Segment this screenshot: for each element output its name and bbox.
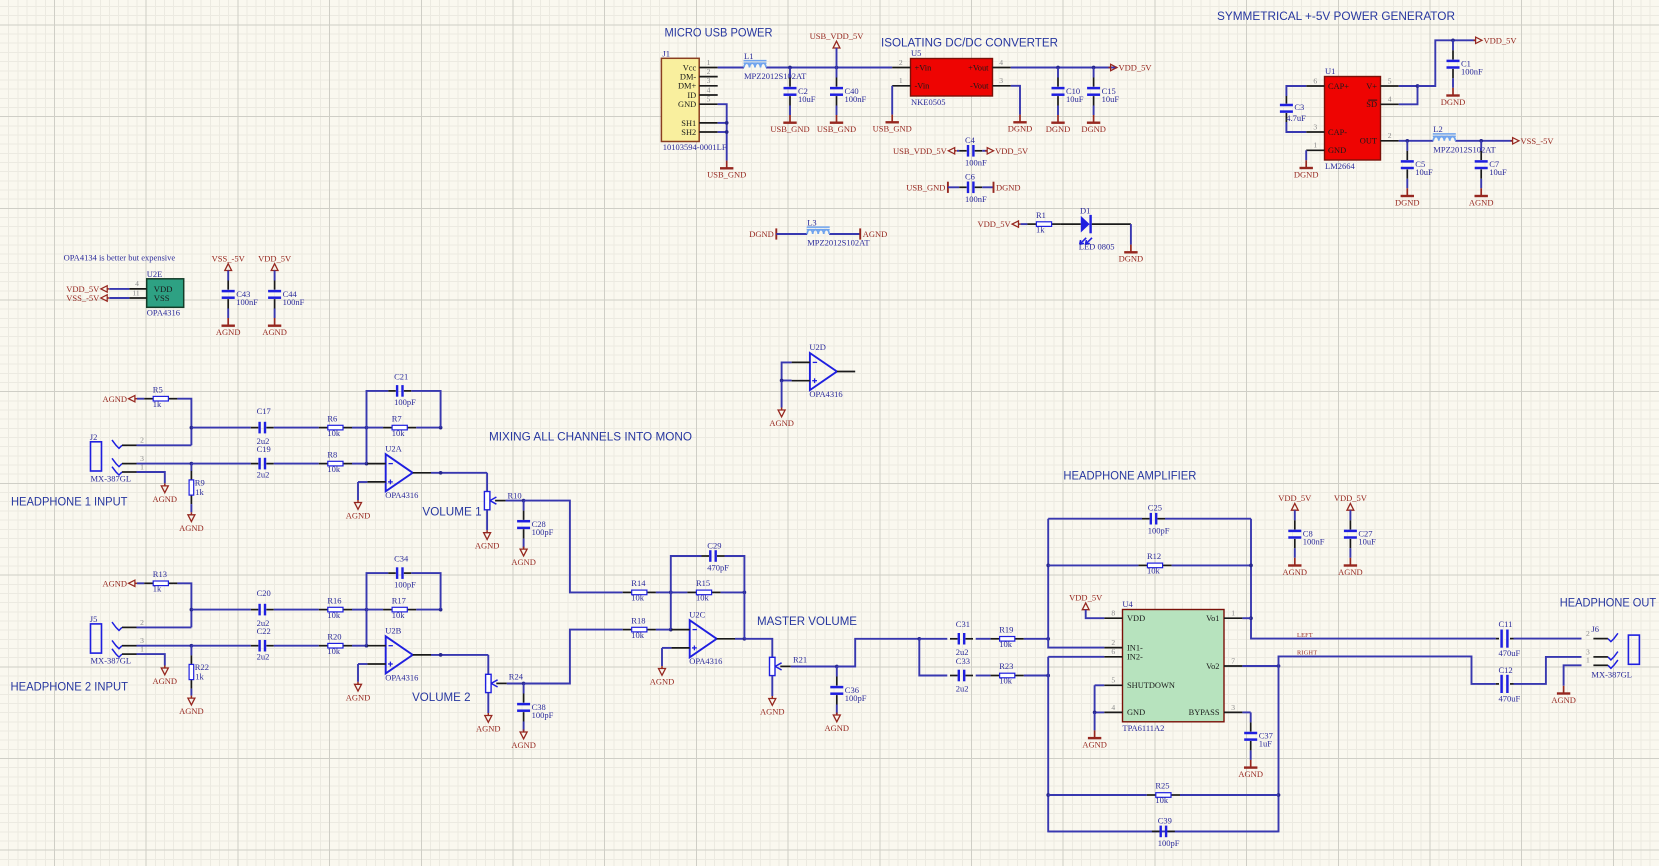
svg-text:R7: R7 <box>392 413 402 423</box>
svg-text:AGND: AGND <box>1338 567 1363 577</box>
svg-text:AGND: AGND <box>863 229 888 239</box>
svg-text:R19: R19 <box>999 625 1013 635</box>
svg-text:MPZ2012S102AT: MPZ2012S102AT <box>744 71 807 81</box>
svg-text:1uF: 1uF <box>1259 739 1273 749</box>
svg-text:MIXING ALL CHANNELS INTO MONO: MIXING ALL CHANNELS INTO MONO <box>489 431 692 444</box>
svg-text:1k: 1k <box>195 672 204 682</box>
svg-text:100nF: 100nF <box>965 194 987 204</box>
svg-text:2: 2 <box>1586 629 1590 638</box>
svg-text:V+: V+ <box>1366 82 1377 91</box>
svg-text:OPA4316: OPA4316 <box>689 656 722 666</box>
svg-text:AGND: AGND <box>476 724 501 734</box>
svg-text:10k: 10k <box>999 639 1013 649</box>
svg-text:AGND: AGND <box>1082 739 1107 749</box>
svg-text:USB_GND: USB_GND <box>707 170 746 180</box>
svg-text:100pF: 100pF <box>1148 525 1170 535</box>
svg-text:10k: 10k <box>327 464 341 474</box>
svg-text:MICRO USB POWER: MICRO USB POWER <box>665 27 773 40</box>
svg-text:2u2: 2u2 <box>257 469 270 479</box>
svg-text:R14: R14 <box>631 578 646 588</box>
svg-text:DGND: DGND <box>1119 254 1144 264</box>
svg-text:C20: C20 <box>257 588 271 598</box>
svg-text:10k: 10k <box>631 630 645 640</box>
svg-text:AGND: AGND <box>179 706 204 716</box>
svg-text:1: 1 <box>1586 656 1590 665</box>
svg-text:100nF: 100nF <box>965 158 987 168</box>
svg-text:2u2: 2u2 <box>956 684 969 694</box>
svg-text:C11: C11 <box>1499 619 1513 629</box>
svg-text:BYPASS: BYPASS <box>1189 708 1220 717</box>
svg-text:U2A: U2A <box>385 443 402 453</box>
svg-text:100pF: 100pF <box>532 527 554 537</box>
svg-text:10k: 10k <box>999 676 1013 686</box>
svg-text:100nF: 100nF <box>1461 67 1483 77</box>
svg-text:10103594-0001LF: 10103594-0001LF <box>663 142 727 152</box>
svg-text:OPA4316: OPA4316 <box>385 490 418 500</box>
svg-text:VDD_5V: VDD_5V <box>1119 63 1153 73</box>
svg-text:10uF: 10uF <box>798 94 816 104</box>
svg-text:AGND: AGND <box>346 692 371 702</box>
svg-text:470uF: 470uF <box>1499 648 1521 658</box>
svg-text:R24: R24 <box>509 671 524 681</box>
svg-text:1: 1 <box>707 58 711 67</box>
svg-text:R18: R18 <box>631 615 645 625</box>
svg-text:100pF: 100pF <box>1158 838 1180 848</box>
svg-text:USB_GND: USB_GND <box>817 124 856 134</box>
svg-text:10uF: 10uF <box>1358 537 1376 547</box>
svg-text:2: 2 <box>899 58 903 67</box>
svg-text:OPA4134 is better but expensiv: OPA4134 is better but expensive <box>64 252 176 262</box>
svg-text:VSS_-5V: VSS_-5V <box>66 293 100 303</box>
svg-text:AGND: AGND <box>102 578 127 588</box>
svg-text:10uF: 10uF <box>1066 94 1084 104</box>
svg-text:IN2-: IN2- <box>1127 653 1143 662</box>
svg-text:D1: D1 <box>1080 206 1090 216</box>
svg-text:R25: R25 <box>1155 781 1169 791</box>
svg-text:C39: C39 <box>1158 815 1172 825</box>
svg-text:3: 3 <box>707 76 711 85</box>
svg-text:R5: R5 <box>153 384 163 394</box>
svg-text:100nF: 100nF <box>845 94 867 104</box>
svg-text:4: 4 <box>135 279 139 288</box>
svg-text:AGND: AGND <box>1469 197 1494 207</box>
svg-text:1k: 1k <box>153 399 162 409</box>
svg-text:ISOLATING DC/DC CONVERTER: ISOLATING DC/DC CONVERTER <box>881 36 1058 50</box>
svg-text:VDD_5V: VDD_5V <box>995 146 1029 156</box>
svg-text:3: 3 <box>1313 122 1317 131</box>
svg-text:OUT: OUT <box>1360 137 1377 146</box>
svg-text:R13: R13 <box>153 569 167 579</box>
svg-text:1k: 1k <box>153 584 162 594</box>
svg-text:U2C: U2C <box>689 609 705 619</box>
svg-text:HEADPHONE 2 INPUT: HEADPHONE 2 INPUT <box>11 681 129 694</box>
svg-text:AGND: AGND <box>1551 695 1576 705</box>
svg-text:C6: C6 <box>965 171 975 181</box>
svg-text:OPA4316: OPA4316 <box>147 308 180 318</box>
svg-text:100nF: 100nF <box>1303 537 1325 547</box>
svg-text:VDD_5V: VDD_5V <box>1484 35 1518 45</box>
svg-text:AGND: AGND <box>216 327 241 337</box>
svg-text:AGND: AGND <box>179 523 204 533</box>
svg-text:RIGHT: RIGHT <box>1297 650 1317 657</box>
svg-text:5: 5 <box>707 95 711 104</box>
svg-text:AGND: AGND <box>1283 567 1308 577</box>
svg-text:SD: SD <box>1366 100 1377 109</box>
svg-text:+Vin: +Vin <box>915 63 933 72</box>
svg-text:HEADPHONE OUT: HEADPHONE OUT <box>1560 596 1656 609</box>
svg-text:10k: 10k <box>327 428 341 438</box>
svg-text:10uF: 10uF <box>1102 94 1120 104</box>
svg-text:10k: 10k <box>696 593 710 603</box>
svg-text:DGND: DGND <box>1008 124 1033 134</box>
svg-text:J6: J6 <box>1591 624 1599 634</box>
svg-text:OPA4316: OPA4316 <box>385 672 418 682</box>
svg-text:100pF: 100pF <box>394 397 416 407</box>
svg-text:MX-387GL: MX-387GL <box>1591 669 1632 679</box>
svg-text:CAP-: CAP- <box>1328 128 1347 137</box>
svg-text:VDD_5V: VDD_5V <box>258 253 292 263</box>
svg-text:R10: R10 <box>508 491 522 501</box>
svg-text:CAP+: CAP+ <box>1328 82 1349 91</box>
svg-text:8: 8 <box>1111 609 1115 618</box>
svg-text:U2E: U2E <box>147 269 163 279</box>
svg-text:C33: C33 <box>956 656 970 666</box>
svg-text:100nF: 100nF <box>236 297 258 307</box>
svg-text:IN1-: IN1- <box>1127 643 1143 652</box>
svg-text:VOLUME 2: VOLUME 2 <box>412 691 470 704</box>
svg-text:4: 4 <box>1111 703 1115 712</box>
svg-text:ID: ID <box>687 91 696 100</box>
svg-text:2: 2 <box>1111 638 1115 647</box>
svg-text:C22: C22 <box>257 626 271 636</box>
svg-text:GND: GND <box>678 100 696 109</box>
svg-text:AGND: AGND <box>511 740 536 750</box>
svg-text:3: 3 <box>1231 703 1235 712</box>
svg-text:VSS_-5V: VSS_-5V <box>212 253 246 263</box>
svg-text:AGND: AGND <box>475 541 500 551</box>
svg-text:HEADPHONE AMPLIFIER: HEADPHONE AMPLIFIER <box>1063 469 1196 482</box>
svg-text:470pF: 470pF <box>707 563 729 573</box>
svg-text:100pF: 100pF <box>845 693 867 703</box>
svg-text:C4: C4 <box>965 135 976 145</box>
svg-text:10k: 10k <box>327 646 341 656</box>
svg-text:6: 6 <box>1111 647 1115 656</box>
svg-text:L1: L1 <box>744 51 753 61</box>
svg-text:100pF: 100pF <box>394 579 416 589</box>
svg-text:C31: C31 <box>956 619 970 629</box>
svg-text:VSS_-5V: VSS_-5V <box>1521 136 1555 146</box>
svg-text:U2D: U2D <box>809 342 826 352</box>
svg-text:SHUTDOWN: SHUTDOWN <box>1127 681 1175 690</box>
svg-text:+Vout: +Vout <box>968 63 989 72</box>
svg-text:7: 7 <box>1231 656 1235 665</box>
svg-text:USB_GND: USB_GND <box>873 124 912 134</box>
svg-text:R8: R8 <box>327 449 337 459</box>
svg-text:R20: R20 <box>327 631 341 641</box>
svg-text:DM-: DM- <box>680 73 696 82</box>
svg-text:DGND: DGND <box>1046 124 1071 134</box>
svg-text:OPA4316: OPA4316 <box>809 389 842 399</box>
svg-text:C34: C34 <box>394 554 409 564</box>
svg-text:C17: C17 <box>257 406 271 416</box>
svg-text:U4: U4 <box>1122 599 1133 609</box>
svg-text:SYMMETRICAL +-5V POWER GENERAT: SYMMETRICAL +-5V POWER GENERATOR <box>1217 9 1455 23</box>
svg-text:U5: U5 <box>911 48 921 58</box>
svg-text:AGND: AGND <box>825 723 850 733</box>
svg-text:VDD_5V: VDD_5V <box>1334 493 1368 503</box>
svg-text:Vcc: Vcc <box>683 63 697 72</box>
svg-text:SH2: SH2 <box>681 128 696 137</box>
svg-text:AGND: AGND <box>650 677 675 687</box>
svg-text:SH1: SH1 <box>681 119 696 128</box>
svg-text:5: 5 <box>1111 676 1115 685</box>
svg-text:USB_VDD_5V: USB_VDD_5V <box>810 31 865 41</box>
svg-text:DGND: DGND <box>749 229 774 239</box>
svg-text:R1: R1 <box>1036 210 1046 220</box>
svg-text:11: 11 <box>132 288 140 297</box>
svg-text:MX-387GL: MX-387GL <box>91 656 132 666</box>
svg-text:C29: C29 <box>707 540 721 550</box>
svg-text:Vo2: Vo2 <box>1206 662 1219 671</box>
svg-text:AGND: AGND <box>346 511 371 521</box>
svg-text:10k: 10k <box>1155 795 1169 805</box>
svg-text:GND: GND <box>1127 708 1145 717</box>
svg-text:DGND: DGND <box>1294 169 1319 179</box>
svg-text:-Vout: -Vout <box>970 82 989 91</box>
svg-text:R12: R12 <box>1147 551 1161 561</box>
svg-text:DM+: DM+ <box>678 82 696 91</box>
svg-text:R15: R15 <box>696 578 710 588</box>
svg-text:4: 4 <box>707 85 711 94</box>
svg-text:LM2664: LM2664 <box>1325 161 1356 171</box>
svg-text:USB_VDD_5V: USB_VDD_5V <box>893 146 948 156</box>
svg-text:U2B: U2B <box>385 625 401 635</box>
svg-text:2u2: 2u2 <box>257 651 270 661</box>
svg-text:1k: 1k <box>1036 224 1045 234</box>
svg-text:AGND: AGND <box>760 707 785 717</box>
svg-text:10uF: 10uF <box>1489 167 1507 177</box>
svg-text:4: 4 <box>1388 95 1392 104</box>
svg-text:TPA6111A2: TPA6111A2 <box>1122 723 1164 733</box>
svg-text:5: 5 <box>1388 76 1392 85</box>
svg-text:470uF: 470uF <box>1499 693 1521 703</box>
svg-text:1: 1 <box>1313 141 1317 150</box>
svg-text:DGND: DGND <box>1395 197 1420 207</box>
svg-text:USB_GND: USB_GND <box>770 124 809 134</box>
svg-text:LED 0805: LED 0805 <box>1079 242 1115 252</box>
svg-text:J2: J2 <box>90 432 98 442</box>
svg-text:AGND: AGND <box>511 557 536 567</box>
svg-text:C19: C19 <box>257 444 271 454</box>
svg-text:U1: U1 <box>1325 66 1335 76</box>
svg-text:C3: C3 <box>1294 102 1304 112</box>
svg-text:1: 1 <box>1231 609 1235 618</box>
svg-text:6: 6 <box>1313 76 1317 85</box>
svg-text:VDD_5V: VDD_5V <box>1069 593 1103 603</box>
svg-text:AGND: AGND <box>1238 769 1263 779</box>
svg-text:-Vin: -Vin <box>915 82 931 91</box>
svg-text:VDD_5V: VDD_5V <box>978 219 1012 229</box>
svg-text:AGND: AGND <box>102 394 127 404</box>
svg-text:LEFT: LEFT <box>1297 632 1313 639</box>
svg-text:DGND: DGND <box>1441 97 1466 107</box>
svg-text:AGND: AGND <box>262 327 287 337</box>
svg-text:100nF: 100nF <box>283 297 305 307</box>
svg-text:HEADPHONE 1 INPUT: HEADPHONE 1 INPUT <box>11 496 128 509</box>
svg-text:MASTER VOLUME: MASTER VOLUME <box>757 615 857 628</box>
svg-text:VDD_5V: VDD_5V <box>1278 493 1312 503</box>
svg-text:R17: R17 <box>392 595 406 605</box>
svg-text:AGND: AGND <box>153 676 178 686</box>
svg-text:Vo1: Vo1 <box>1206 614 1219 623</box>
svg-text:J1: J1 <box>662 49 670 59</box>
svg-text:R16: R16 <box>327 595 341 605</box>
svg-text:AGND: AGND <box>769 418 794 428</box>
svg-text:R23: R23 <box>999 661 1013 671</box>
svg-text:GND: GND <box>1328 146 1346 155</box>
svg-text:2: 2 <box>140 436 144 445</box>
svg-text:VDD: VDD <box>1127 614 1145 623</box>
svg-text:2: 2 <box>1388 131 1392 140</box>
svg-text:L3: L3 <box>807 217 816 227</box>
svg-text:10k: 10k <box>1147 566 1161 576</box>
svg-text:10uF: 10uF <box>1415 167 1433 177</box>
svg-text:2: 2 <box>707 67 711 76</box>
svg-text:10k: 10k <box>392 428 406 438</box>
svg-text:L2: L2 <box>1433 124 1442 134</box>
svg-text:J5: J5 <box>90 614 98 624</box>
svg-text:VOLUME 1: VOLUME 1 <box>422 506 481 519</box>
svg-text:C12: C12 <box>1499 665 1513 675</box>
svg-text:MPZ2012S102AT: MPZ2012S102AT <box>1433 144 1496 154</box>
svg-text:USB_GND: USB_GND <box>906 182 945 192</box>
svg-text:DGND: DGND <box>1081 124 1106 134</box>
svg-text:1: 1 <box>899 76 903 85</box>
svg-text:R21: R21 <box>793 655 807 665</box>
svg-text:10k: 10k <box>631 593 645 603</box>
svg-text:C25: C25 <box>1148 503 1162 513</box>
svg-text:NKE0505: NKE0505 <box>911 97 945 107</box>
svg-text:MX-387GL: MX-387GL <box>91 474 132 484</box>
svg-text:10k: 10k <box>327 610 341 620</box>
svg-text:3: 3 <box>999 76 1003 85</box>
svg-text:VSS: VSS <box>154 293 170 303</box>
svg-text:C21: C21 <box>394 372 408 382</box>
svg-text:10k: 10k <box>392 610 406 620</box>
svg-text:100pF: 100pF <box>532 710 554 720</box>
svg-text:4.7uF: 4.7uF <box>1286 113 1306 123</box>
svg-text:4: 4 <box>999 58 1003 67</box>
svg-text:1k: 1k <box>195 487 204 497</box>
svg-text:2: 2 <box>140 618 144 627</box>
svg-text:R6: R6 <box>327 413 337 423</box>
svg-text:DGND: DGND <box>996 182 1021 192</box>
svg-text:AGND: AGND <box>153 494 178 504</box>
